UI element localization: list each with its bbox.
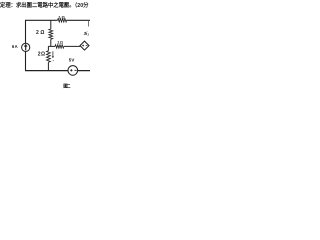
svg-text:定理：求出圖二電路中之電壓。（20分: 定理：求出圖二電路中之電壓。（20分 (0, 1, 89, 9)
svg-text:1 Ω: 1 Ω (57, 40, 63, 44)
svg-text:6 A: 6 A (12, 44, 18, 49)
wire right stub (87, 20, 89, 26)
wire middle horizontal (48, 45, 80, 47)
svg-text:圖二: 圖二 (63, 82, 71, 89)
wire top rail (25, 19, 90, 21)
resistor R4 2Ω lower (47, 51, 51, 62)
wire bottom rail (25, 70, 90, 72)
current arrow i1 (52, 51, 54, 56)
voltage source V1 5V (68, 66, 78, 76)
wire middle vertical branch (50, 20, 52, 46)
dependent source D1 diamond (80, 41, 89, 50)
svg-text:2 Ω: 2 Ω (38, 51, 45, 57)
resistor R2 2Ω upper (49, 29, 53, 39)
resistor R3 1Ω middle (55, 45, 64, 48)
wire lower vertical branch (47, 46, 49, 70)
svg-text:5 V: 5 V (69, 58, 75, 63)
svg-text:2 Ω: 2 Ω (36, 30, 44, 36)
resistor R1 1Ω top (57, 20, 66, 21)
wire left vertical (25, 20, 27, 70)
svg-text:1 Ω: 1 Ω (58, 14, 65, 19)
current source I1 6A (22, 43, 30, 51)
